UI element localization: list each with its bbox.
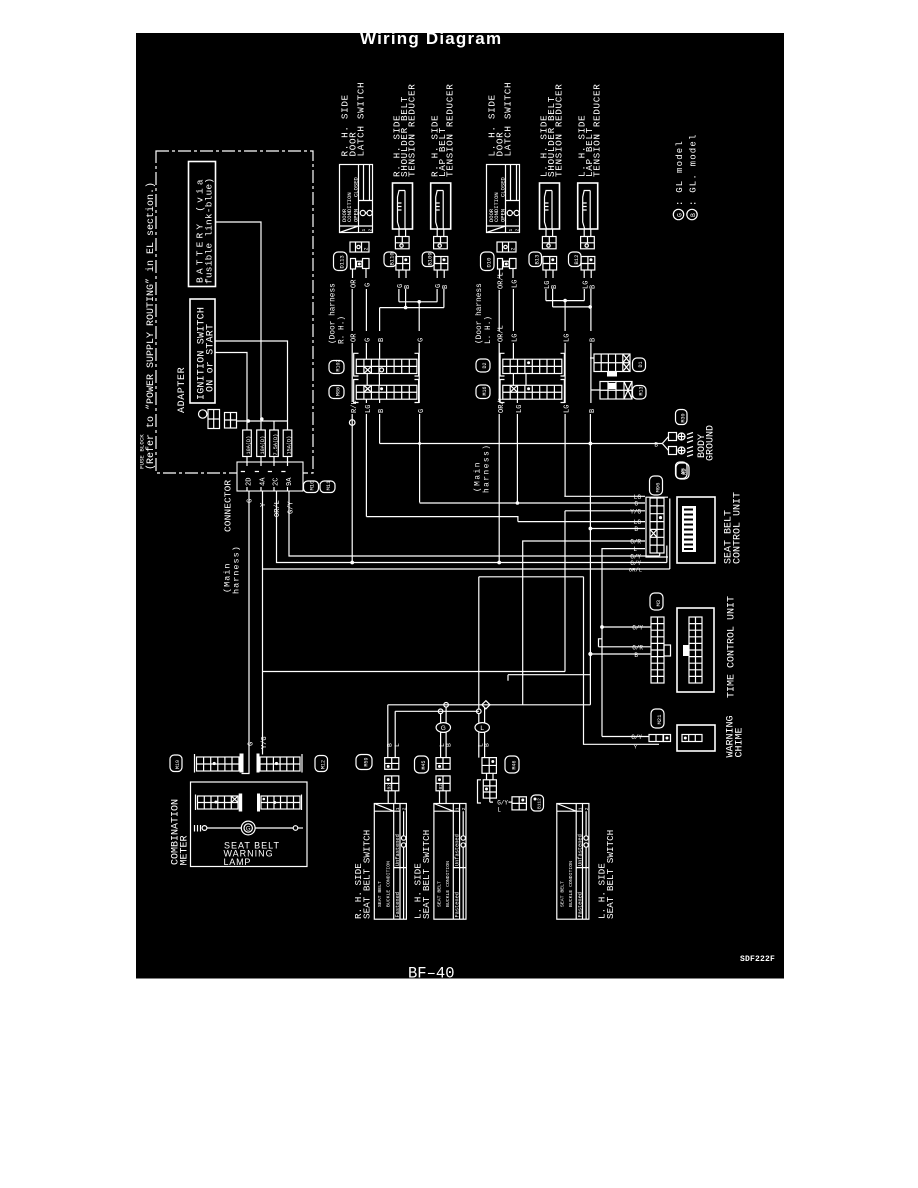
R.H. reducer G bus [399,301,437,303]
svg-text:(Door harness: (Door harness [330,283,338,344]
connector M16 stadium [476,385,490,399]
stubs between R.H. grid rows [367,374,379,386]
svg-text:G: G [677,213,684,217]
svg-text:R/L: R/L [351,400,359,413]
svg-text:LG: LG [512,280,520,288]
svg-text:LG: LG [512,334,520,342]
svg-text:G/Y: G/Y [497,800,508,807]
legend circled B : GL model [687,209,697,219]
wire G bus to seat belt control unit [420,502,645,504]
svg-text:D10: D10 [486,258,493,268]
wire ignition to fuse 1 [215,353,247,431]
wires below R.H. grid row 2 [366,399,379,516]
svg-text:M45: M45 [421,760,427,769]
svg-text:B12: B12 [573,255,580,265]
R.H. buckle connector a [385,758,399,770]
svg-text:OR/L: OR/L [274,500,282,517]
time control unit connector strip [651,617,664,683]
svg-text:L: L [394,743,401,747]
connector M21 stadium [651,709,664,728]
L.H. grid connector row 2 [500,380,564,403]
svg-text:OPEN: OPEN [352,209,359,222]
G buckle connector b [436,776,450,791]
wire L to control unit [602,549,645,737]
stub wires connectors to tables [388,773,493,803]
connector M11 [320,481,335,493]
svg-text:10A(D): 10A(D) [246,436,252,455]
svg-text:BUCKLE CONDITION: BUCKLE CONDITION [445,861,451,907]
wire Y/G from switch bus vertical [565,511,645,672]
wire OR/L from D10 [498,269,500,402]
svg-text:2: 2 [511,247,517,250]
body ground symbol [662,437,668,451]
svg-text:Fastened: Fastened [455,892,461,917]
svg-text:1: 1 [454,807,460,810]
svg-text:B: B [445,743,452,747]
svg-text:M30: M30 [681,413,687,422]
svg-text:SEAT BELT SWITCH: SEAT BELT SWITCH [421,830,432,919]
L.H. buckle switch oval L [479,708,485,723]
connector M80 stadium [329,386,344,399]
svg-text:1: 1 [361,229,367,232]
svg-text:TENSION REDUCER: TENSION REDUCER [445,84,456,177]
svg-text:B: B [634,526,638,533]
tension reducer connector [399,229,406,237]
svg-text:LG: LG [365,405,373,413]
meter grid connector 1 [194,754,196,773]
connector M46 stadium [505,756,519,773]
svg-text:M12: M12 [321,760,327,769]
svg-text:M46: M46 [512,760,518,769]
warning chime connector [649,735,663,742]
L.H. seat belt switch table [434,804,466,920]
inline connector circle on OR wire [349,420,355,426]
connector M10 [304,481,319,493]
svg-text:G: G [418,409,426,413]
svg-text:D1: D1 [638,361,644,367]
svg-text:CLOSED: CLOSED [352,176,359,197]
connector B12 [569,252,582,267]
seat belt control unit connector strip [646,497,668,557]
wires fuses to connector box [247,457,288,463]
R.H. shoulder belt tension reducer box [393,183,413,229]
svg-text:G: G [365,338,373,342]
meter inner grid 1 [195,795,197,811]
svg-text:ADAPTER: ADAPTER [177,367,188,413]
L buckle connector [482,758,496,774]
svg-text:B109: B109 [427,252,434,265]
svg-text:G/Y: G/Y [632,625,643,632]
svg-text:2: 2 [401,807,407,810]
svg-text:G/Y: G/Y [631,734,642,741]
svg-text:TENSION REDUCER: TENSION REDUCER [554,84,565,177]
seat belt warning lamp [195,825,201,832]
wire G from D113 [365,269,367,360]
svg-text:M3: M3 [655,600,662,607]
svg-text:B: B [589,285,597,289]
svg-text:G: G [365,283,373,287]
R.H. grid connector row 2 [354,380,419,403]
connector D10 [481,252,495,271]
warning chime box [677,725,715,751]
svg-text:B13: B13 [533,255,540,265]
svg-text:M102: M102 [336,359,342,371]
svg-text:OR/L: OR/L [498,325,506,342]
black diagram panel [136,33,784,979]
junction dot [247,419,251,423]
svg-text:1: 1 [577,807,583,810]
wire OR/L vertical to bus [277,491,667,563]
svg-text:15A(D): 15A(D) [287,436,293,455]
svg-text:10A(D): 10A(D) [260,436,266,455]
svg-text:LG: LG [564,334,572,342]
svg-text:2: 2 [584,807,590,810]
svg-text:B: B [386,743,393,747]
svg-text:B: B [378,409,386,413]
svg-text:L: L [633,546,637,553]
svg-text:G: G [246,827,251,833]
svg-text:M96: M96 [655,483,662,493]
junction dot battery adapter [260,417,264,421]
time control unit box [677,608,714,692]
svg-text:SEAT BELT SWITCH: SEAT BELT SWITCH [362,830,373,919]
wire ignition to fuse 4 [215,341,288,430]
svg-text:Fastened: Fastened [395,892,401,917]
svg-text:B112: B112 [537,798,543,809]
wires LG B from L.H. shoulder reducer [546,270,553,307]
svg-text:M80: M80 [336,387,342,396]
svg-text:(Door harness: (Door harness [476,283,484,344]
wire LG bus from R.H. grid with jog [366,517,645,522]
svg-text:Y/G: Y/G [261,736,269,749]
svg-text:fusible link-blue): fusible link-blue) [204,178,215,284]
ignition switch box S1 [190,299,215,403]
svg-text:2: 2 [368,229,374,232]
svg-text:B: B [690,213,697,217]
wire OR from D113 [351,269,353,402]
wire G/R to control unit [523,541,645,705]
svg-text:OR/L: OR/L [498,396,506,413]
svg-text:OPEN: OPEN [499,209,506,222]
svg-text:M19: M19 [175,760,181,769]
svg-text:TIME CONTROL UNIT: TIME CONTROL UNIT [727,596,738,698]
svg-text:D2: D2 [482,362,488,368]
G buckle connector a [436,758,450,770]
R.H. lap belt tension reducer box [431,183,451,229]
L.H. door inline connector [498,259,503,270]
svg-text:2D: 2D [246,478,254,486]
svg-text:R. H.): R. H.) [339,316,347,344]
svg-text:TENSION REDUCER: TENSION REDUCER [592,84,603,177]
stub wires B1 M13 [590,358,600,390]
svg-text:G: G [248,742,256,746]
svg-text:CHIME: CHIME [735,727,746,757]
connector M13 stadium [633,386,647,400]
svg-text:2C: 2C [273,478,281,486]
B112 2x2 connector [512,797,526,810]
seat belt switch bus upper [388,704,591,706]
warning chime second wire [508,655,659,745]
svg-text:B: B [589,338,597,342]
wires below L.H. grid row 2 [352,399,517,562]
time control unit wire G/Y [600,625,604,629]
svg-text:Unfastened: Unfastened [395,834,401,866]
connector D2 stadium [476,359,490,372]
connector B13 [529,252,542,267]
svg-text:1: 1 [508,229,514,232]
svg-text:B: B [442,285,450,289]
svg-text:METER: METER [180,835,191,865]
connector M96 stadium [650,476,663,495]
battery box B1 [189,162,216,287]
svg-text:harness): harness) [484,444,492,493]
svg-text:2: 2 [461,807,467,810]
svg-text:B: B [484,743,491,747]
svg-text:Wiring Diagram: Wiring Diagram [360,29,502,48]
wire loop L.H. buckle to warning chime branch [479,577,584,709]
svg-text:SDF222F: SDF222F [740,955,775,964]
wire Y/G main vertical [262,491,264,755]
svg-text:M2: M2 [681,468,688,475]
svg-text:CONNECTOR: CONNECTOR [223,480,234,532]
wire adapter to fuses [237,421,288,430]
svg-text:OR/L: OR/L [629,566,642,573]
svg-text:BUCKLE CONDITION: BUCKLE CONDITION [568,861,574,907]
connector M19 stadium [170,755,182,772]
fuse block dash-dot boundary box [156,151,313,473]
R.H. door latch pin connector [350,242,369,252]
svg-text:G: G [247,499,255,503]
legend circled A : GL model [673,209,683,219]
L.H. shoulder belt tension reducer box [540,183,560,229]
wire G/Y to B112 [490,798,493,802]
connector D113 [334,252,348,271]
fuse F2 10A [257,430,266,457]
svg-text:M13: M13 [639,386,645,395]
svg-text:G/R: G/R [632,645,643,652]
R.H. door latch switch table [340,165,373,233]
svg-text:1: 1 [395,807,401,810]
fuse F4 15A [283,430,292,457]
svg-text:M21: M21 [656,714,663,725]
svg-text:harness): harness) [232,545,242,594]
wire B from main vertical [590,528,645,530]
wire LG bus from grid to control unit [564,495,645,497]
R.H. buckle switch oval G [441,707,447,723]
meter grid connector 2 [257,754,260,773]
L.H. grid connector row 1 [500,353,564,376]
svg-text:Y/G: Y/G [630,508,641,515]
svg-text:: GL. model: : GL. model [689,133,699,206]
time control unit wire B [590,653,651,655]
svg-text:M59: M59 [364,757,370,766]
svg-text:SEAT BELT: SEAT BELT [560,881,566,907]
svg-text:Unfastened: Unfastened [455,834,461,866]
L.H. reducer B bus [553,306,591,308]
svg-text:OR: OR [351,279,359,288]
svg-text:2: 2 [515,229,521,232]
svg-text:B: B [654,442,658,449]
fuse block connector box [237,462,303,491]
svg-text:Fastened: Fastened [578,892,584,917]
seat belt switch bus lower [395,710,479,712]
svg-text:G: G [441,725,446,732]
junction dots on OR/L bus [350,561,354,565]
wire battery to fuse 2 [216,222,262,430]
svg-text:G: G [634,501,638,508]
connector M102 stadium [329,361,344,374]
svg-text:BF–40: BF–40 [408,965,455,983]
fuse F1 10A [243,430,252,457]
svg-text:4A: 4A [260,477,268,486]
svg-text:9A: 9A [286,477,294,486]
svg-text:D113: D113 [339,255,346,268]
svg-text:L: L [497,807,501,814]
time control unit wire G/R with jog [599,639,652,647]
wire G main vertical [248,491,250,755]
svg-text:L. H.): L. H.) [485,316,493,344]
svg-text:M10: M10 [309,481,316,491]
L.H. lap belt tension reducer box [578,183,598,229]
wires G B from lap reducer [437,270,444,308]
svg-text:FUSE BLOCK: FUSE BLOCK [139,434,146,469]
seat belt control unit box [677,497,715,563]
connector B109 [422,252,435,267]
svg-text:LATCH SWITCH: LATCH SWITCH [356,82,367,157]
connector M30 stadium [676,410,688,425]
meter inner grid 2 [257,794,260,812]
connector M3 stadium [650,593,663,610]
fuse F3 7.5A [270,430,279,457]
connector M13 grid [600,382,632,400]
wire Y/G branch bus [263,499,670,570]
wire B to body ground [380,443,663,445]
svg-text:B: B [378,338,386,342]
svg-text:CONTROL UNIT: CONTROL UNIT [733,492,744,564]
svg-text:BUCKLE CONDITION: BUCKLE CONDITION [386,861,392,907]
connector M45 stadium [415,756,429,773]
stubs between L.H. grid rows [513,374,526,386]
R.H. buckle connector b [385,776,399,791]
wire LG from D10 [512,269,514,360]
svg-text:OR/L: OR/L [498,272,506,289]
R.H. grid connector row 1 [354,353,419,376]
switch terminal circles [444,703,449,708]
svg-text:B: B [404,285,412,289]
svg-text:Unfastened: Unfastened [578,834,584,866]
svg-text:G/R: G/R [630,539,641,546]
L.H. reducer LG bus [546,300,584,302]
svg-text:LAMP: LAMP [224,857,252,867]
connector M5 stadium [676,462,688,479]
svg-text:CLOSED: CLOSED [499,176,506,197]
connector B112 stadium [531,795,544,811]
svg-text:LG: LG [516,405,524,413]
wire G/Y bus [289,491,660,556]
combination meter box [191,782,308,867]
R.H. door inline connector [351,259,356,270]
svg-text:SEAT BELT: SEAT BELT [377,881,383,907]
svg-text:L: L [480,725,484,732]
svg-text:OR: OR [351,333,359,342]
svg-text:B: B [634,652,638,659]
svg-text:GROUND: GROUND [706,425,717,461]
wires LG B from L.H. lap reducer [584,270,591,307]
svg-text:LATCH SWITCH: LATCH SWITCH [503,82,514,157]
svg-text:(Main: (Main [475,461,483,492]
wires down to buckle connectors [388,705,395,758]
svg-text:2: 2 [364,247,370,250]
svg-text:(Refer to “POWER SUPPLY ROUTIN: (Refer to “POWER SUPPLY ROUTING” in EL s… [145,182,157,470]
svg-text:B2: B2 [387,784,393,790]
svg-text:LG: LG [564,405,572,413]
connector M12 stadium [315,756,328,772]
svg-text:TENSION REDUCER: TENSION REDUCER [407,84,418,177]
svg-text:M16: M16 [482,386,488,395]
connector M59 stadium [356,755,372,770]
svg-text:B110: B110 [388,252,395,265]
L.H. door latch switch table [487,165,520,233]
svg-text:SEAT BELT: SEAT BELT [437,881,443,907]
connector M2 stadium [676,463,689,479]
L.H. door latch pin connector [497,242,516,252]
connector D1 stadium [633,358,646,372]
R.H. reducer B bus [380,307,444,309]
connector pin label ticks [241,471,286,473]
wire LG lower bus [263,671,566,673]
warning chime wire G/Y [602,736,649,738]
svg-text:G: G [418,338,426,342]
svg-text:M11: M11 [325,480,332,491]
svg-text:B: B [589,409,597,413]
R.H. seat belt switch table [374,804,406,920]
wires G B from reducer [399,270,406,308]
svg-text:7.5A(D): 7.5A(D) [273,434,279,456]
connector B1 grid [594,354,630,372]
svg-text:B: B [551,285,559,289]
svg-text:SEAT BELT SWITCH: SEAT BELT SWITCH [605,830,616,919]
connector B110 [384,252,397,267]
L.H. belt switch grid 2x3 [478,780,482,803]
adapter symbol [199,410,207,418]
svg-text:ON or START: ON or START [206,324,217,392]
L.H. rear seat belt switch table [557,804,589,920]
svg-text:B2: B2 [438,784,444,790]
svg-text:: GL model: : GL model [675,140,685,206]
